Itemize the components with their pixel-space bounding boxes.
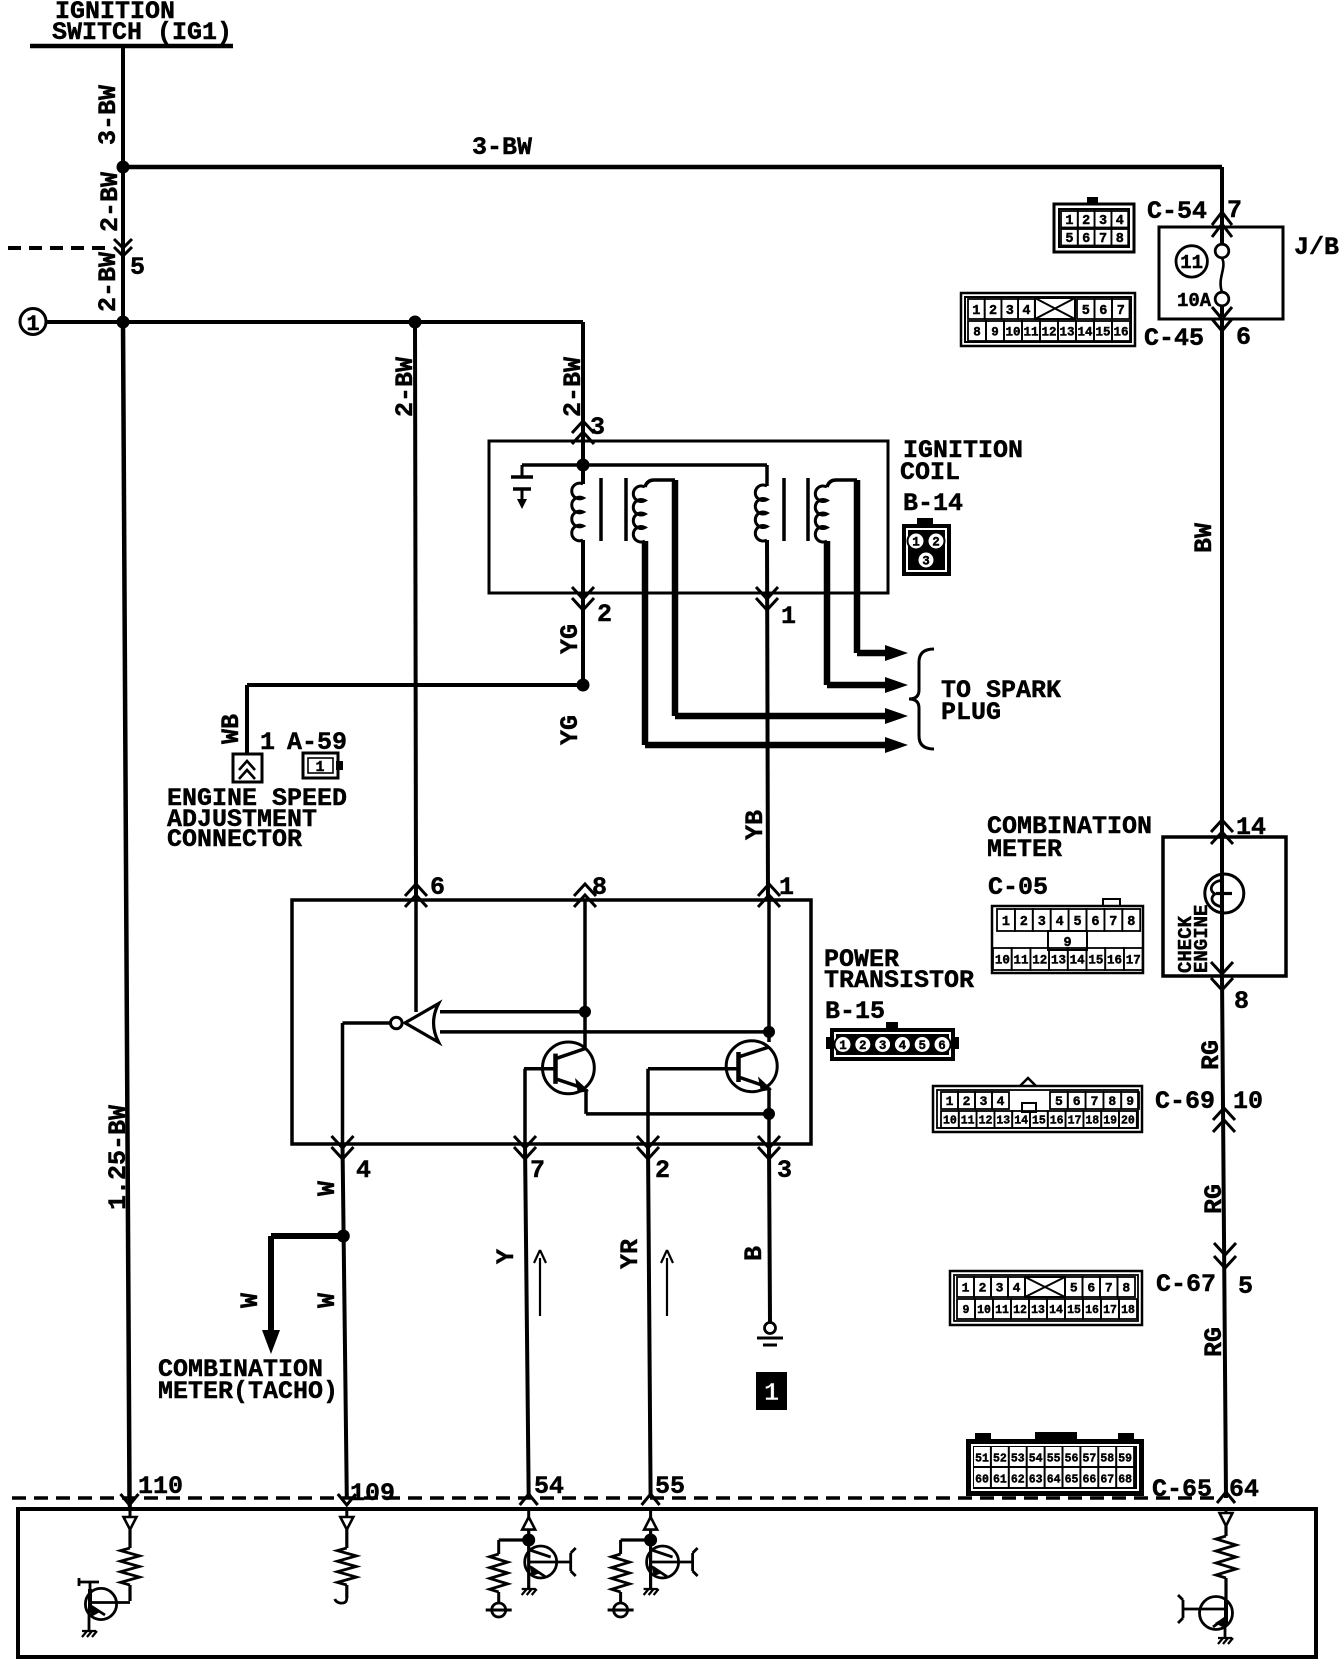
svg-text:5: 5 — [1238, 1272, 1253, 1301]
svg-text:3: 3 — [922, 555, 930, 569]
svg-text:1: 1 — [972, 304, 980, 319]
svg-text:14: 14 — [1070, 954, 1086, 968]
svg-text:C-54: C-54 — [1147, 197, 1207, 226]
svg-text:13: 13 — [1051, 954, 1066, 968]
svg-text:16: 16 — [1107, 954, 1122, 968]
svg-text:15: 15 — [1067, 1304, 1081, 1317]
svg-text:8: 8 — [1116, 232, 1124, 247]
svg-text:C-05: C-05 — [988, 873, 1048, 902]
svg-text:10: 10 — [995, 954, 1010, 968]
svg-text:1: 1 — [764, 1378, 780, 1408]
svg-text:2: 2 — [597, 600, 612, 629]
svg-text:12: 12 — [979, 1115, 993, 1128]
svg-text:PLUG: PLUG — [941, 698, 1001, 727]
svg-text:W: W — [313, 1293, 342, 1308]
svg-text:10A: 10A — [1177, 290, 1212, 312]
svg-text:60: 60 — [975, 1474, 989, 1487]
svg-text:58: 58 — [1100, 1453, 1114, 1466]
svg-text:9: 9 — [963, 1304, 970, 1317]
svg-text:W: W — [236, 1293, 265, 1308]
svg-text:12: 12 — [1032, 954, 1047, 968]
svg-text:10: 10 — [1005, 326, 1020, 340]
svg-text:12: 12 — [1013, 1304, 1027, 1317]
svg-text:1: 1 — [912, 536, 920, 550]
svg-text:64: 64 — [1229, 1475, 1259, 1504]
svg-text:109: 109 — [350, 1479, 395, 1508]
svg-text:7: 7 — [1227, 196, 1242, 225]
svg-text:2-BW: 2-BW — [94, 252, 123, 312]
svg-text:17: 17 — [1126, 954, 1141, 968]
svg-text:18: 18 — [1085, 1115, 1099, 1128]
svg-text:2: 2 — [963, 1094, 971, 1109]
svg-text:66: 66 — [1082, 1474, 1096, 1487]
svg-text:6: 6 — [1236, 323, 1251, 352]
svg-text:2: 2 — [655, 1156, 670, 1185]
svg-text:4: 4 — [1116, 214, 1124, 229]
svg-text:3: 3 — [1099, 214, 1107, 229]
svg-text:1: 1 — [1065, 214, 1073, 229]
svg-text:2: 2 — [1082, 214, 1090, 229]
svg-text:13: 13 — [1059, 326, 1074, 340]
svg-text:C-69: C-69 — [1155, 1087, 1215, 1116]
svg-text:5: 5 — [1070, 1281, 1078, 1296]
svg-text:7: 7 — [1091, 1094, 1099, 1109]
svg-text:3: 3 — [996, 1281, 1004, 1296]
svg-text:15: 15 — [1088, 954, 1103, 968]
svg-text:11: 11 — [1023, 326, 1038, 340]
svg-text:53: 53 — [1011, 1453, 1025, 1466]
svg-text:14: 14 — [1236, 813, 1266, 842]
svg-text:1: 1 — [839, 1039, 847, 1053]
svg-text:METER(TACHO): METER(TACHO) — [158, 1377, 338, 1406]
svg-text:6: 6 — [1087, 1281, 1095, 1296]
svg-text:6: 6 — [1073, 1094, 1081, 1109]
svg-text:7: 7 — [1105, 1281, 1113, 1296]
svg-text:8: 8 — [1127, 915, 1135, 930]
svg-text:5: 5 — [1065, 232, 1073, 247]
svg-text:CONNECTOR: CONNECTOR — [167, 825, 302, 854]
svg-text:12: 12 — [1041, 326, 1056, 340]
svg-text:54: 54 — [534, 1472, 564, 1501]
svg-text:4: 4 — [997, 1094, 1005, 1109]
svg-text:RG: RG — [1200, 1327, 1229, 1357]
svg-text:3: 3 — [980, 1094, 988, 1109]
svg-text:3: 3 — [879, 1039, 887, 1053]
svg-text:WB: WB — [217, 714, 246, 744]
svg-text:A-59: A-59 — [287, 728, 347, 757]
svg-text:57: 57 — [1082, 1453, 1096, 1466]
svg-text:4: 4 — [356, 1156, 371, 1185]
svg-text:3: 3 — [590, 413, 605, 442]
svg-text:Y: Y — [492, 1249, 521, 1264]
svg-text:YR: YR — [616, 1239, 645, 1269]
svg-text:8: 8 — [1234, 987, 1249, 1016]
svg-text:9: 9 — [1126, 1094, 1134, 1109]
svg-text:10: 10 — [1233, 1087, 1263, 1116]
svg-text:C-67: C-67 — [1156, 1270, 1216, 1299]
svg-text:11: 11 — [1180, 252, 1203, 274]
svg-text:W: W — [313, 1181, 342, 1196]
svg-text:2-BW: 2-BW — [96, 172, 125, 232]
svg-text:3: 3 — [777, 1156, 792, 1185]
svg-text:1: 1 — [260, 728, 275, 757]
svg-text:7: 7 — [1099, 232, 1107, 247]
svg-text:RG: RG — [1197, 1040, 1226, 1070]
svg-text:16: 16 — [1085, 1304, 1099, 1317]
svg-text:B-14: B-14 — [903, 489, 963, 518]
svg-text:8: 8 — [1122, 1281, 1130, 1296]
svg-text:5: 5 — [1073, 915, 1081, 930]
svg-text:51: 51 — [975, 1453, 989, 1466]
svg-text:ENGINE: ENGINE — [1191, 905, 1213, 973]
svg-text:13: 13 — [996, 1115, 1010, 1128]
svg-text:10: 10 — [977, 1304, 991, 1317]
svg-text:16: 16 — [1113, 326, 1128, 340]
svg-text:4: 4 — [899, 1039, 907, 1053]
svg-text:1: 1 — [946, 1094, 954, 1109]
svg-text:17: 17 — [1068, 1115, 1082, 1128]
svg-text:C-45: C-45 — [1144, 324, 1204, 353]
svg-text:3: 3 — [1006, 304, 1014, 319]
svg-text:1: 1 — [26, 312, 39, 337]
svg-text:2-BW: 2-BW — [559, 357, 588, 417]
svg-text:62: 62 — [1011, 1474, 1025, 1487]
svg-text:13: 13 — [1031, 1304, 1045, 1317]
svg-text:2: 2 — [989, 304, 997, 319]
svg-text:C-65: C-65 — [1152, 1475, 1212, 1504]
svg-text:8: 8 — [973, 326, 981, 340]
svg-text:67: 67 — [1100, 1474, 1114, 1487]
svg-text:3-BW: 3-BW — [472, 133, 532, 162]
svg-text:4: 4 — [1056, 915, 1064, 930]
svg-text:5: 5 — [1082, 304, 1090, 319]
svg-text:COIL: COIL — [900, 458, 960, 487]
svg-text:14: 14 — [1014, 1115, 1028, 1128]
svg-text:4: 4 — [1013, 1281, 1021, 1296]
svg-text:8: 8 — [592, 873, 607, 902]
svg-text:11: 11 — [1014, 954, 1029, 968]
svg-text:14: 14 — [1049, 1304, 1063, 1317]
svg-text:YB: YB — [741, 810, 770, 840]
svg-text:SWITCH (IG1): SWITCH (IG1) — [52, 18, 232, 47]
svg-text:RG: RG — [1200, 1184, 1229, 1214]
svg-text:5: 5 — [130, 253, 145, 282]
svg-text:8: 8 — [1108, 1094, 1116, 1109]
svg-text:11: 11 — [961, 1115, 975, 1128]
svg-text:1: 1 — [962, 1281, 970, 1296]
svg-text:1: 1 — [1002, 915, 1010, 930]
svg-text:YG: YG — [556, 715, 585, 745]
svg-text:56: 56 — [1065, 1453, 1079, 1466]
svg-text:17: 17 — [1103, 1304, 1117, 1317]
svg-text:2: 2 — [1020, 915, 1028, 930]
svg-text:6: 6 — [938, 1039, 946, 1053]
svg-text:3-BW: 3-BW — [94, 85, 123, 145]
svg-text:2: 2 — [859, 1039, 867, 1053]
svg-text:1.25-BW: 1.25-BW — [104, 1105, 133, 1210]
svg-text:7: 7 — [1117, 304, 1125, 319]
svg-text:5: 5 — [1055, 1094, 1063, 1109]
svg-text:1: 1 — [779, 873, 794, 902]
svg-text:YG: YG — [556, 624, 585, 654]
svg-text:2-BW: 2-BW — [391, 357, 420, 417]
svg-text:7: 7 — [1109, 915, 1117, 930]
svg-text:14: 14 — [1077, 326, 1093, 340]
svg-text:B: B — [740, 1246, 769, 1261]
svg-text:63: 63 — [1029, 1474, 1043, 1487]
svg-text:65: 65 — [1065, 1474, 1079, 1487]
svg-text:10: 10 — [943, 1115, 957, 1128]
svg-text:55: 55 — [1047, 1453, 1061, 1466]
svg-text:64: 64 — [1047, 1474, 1061, 1487]
svg-text:TRANSISTOR: TRANSISTOR — [824, 966, 974, 995]
svg-text:9: 9 — [991, 326, 999, 340]
svg-text:2: 2 — [932, 536, 940, 550]
svg-text:20: 20 — [1121, 1115, 1135, 1128]
svg-text:59: 59 — [1118, 1453, 1132, 1466]
svg-text:54: 54 — [1029, 1453, 1043, 1466]
svg-text:68: 68 — [1118, 1474, 1132, 1487]
svg-text:J/B: J/B — [1294, 233, 1339, 262]
svg-text:6: 6 — [1099, 304, 1107, 319]
svg-text:B-15: B-15 — [825, 997, 885, 1026]
svg-text:7: 7 — [530, 1156, 545, 1185]
svg-text:6: 6 — [1091, 915, 1099, 930]
svg-text:BW: BW — [1190, 523, 1219, 553]
svg-text:1: 1 — [315, 759, 324, 776]
svg-text:15: 15 — [1032, 1115, 1046, 1128]
svg-text:15: 15 — [1095, 326, 1110, 340]
svg-text:18: 18 — [1121, 1304, 1135, 1317]
svg-text:6: 6 — [1082, 232, 1090, 247]
svg-text:3: 3 — [1038, 915, 1046, 930]
svg-text:61: 61 — [993, 1474, 1007, 1487]
svg-text:4: 4 — [1022, 304, 1030, 319]
svg-text:52: 52 — [993, 1453, 1007, 1466]
svg-text:110: 110 — [138, 1472, 183, 1501]
svg-text:11: 11 — [995, 1304, 1009, 1317]
svg-text:5: 5 — [918, 1039, 926, 1053]
svg-text:METER: METER — [987, 835, 1062, 864]
svg-text:19: 19 — [1103, 1115, 1117, 1128]
svg-text:2: 2 — [979, 1281, 987, 1296]
svg-text:6: 6 — [430, 873, 445, 902]
svg-text:1: 1 — [781, 602, 796, 631]
svg-text:55: 55 — [655, 1472, 685, 1501]
svg-text:16: 16 — [1050, 1115, 1064, 1128]
